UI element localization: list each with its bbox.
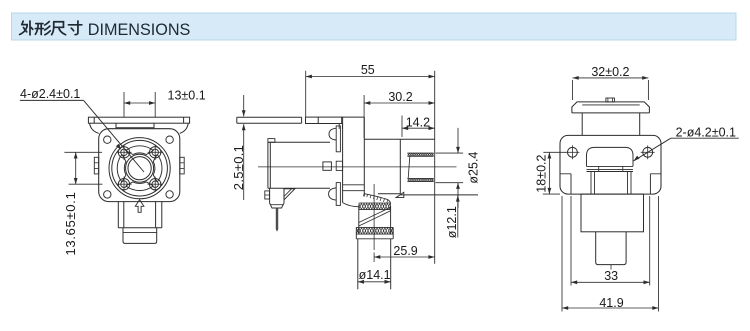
front view hub outer ring [126,154,154,182]
dimension 33 extension lines [570,196,572,286]
side view horizontal centerline [258,166,457,168]
side view small square detail [323,162,332,170]
side view tube thread band top [408,152,434,154]
dimension 2.5±0.1 line [243,95,245,116]
side view connector pin [276,208,278,231]
svg-text:ø12.1: ø12.1 [445,206,459,238]
svg-text:13.65±0.1: 13.65±0.1 [63,192,78,256]
dimension 30.2 extension line [363,95,365,138]
dimension 14.2 line [402,127,435,129]
rear view window [587,147,634,166]
svg-text:18±0.2: 18±0.2 [535,154,549,192]
dimension &#248;12.1 line [457,195,459,237]
front view boss outer circle [109,138,170,199]
label 4-&#248;2.4±0.1 leader [84,100,144,172]
side view mounting plate edge [237,116,302,118]
front view corner mounting holes [104,136,111,143]
dimension 55 line [306,76,435,78]
side view outlet tube [357,239,359,289]
svg-text:13±0.1: 13±0.1 [168,89,206,103]
dimension 13.65±0.1 line [75,152,77,184]
side view tube end / extension line [434,71,436,264]
rear view flange hole left [568,147,578,157]
rear view flange hole right [643,147,653,157]
dimension 13.65±0.1 extension lines [64,151,102,153]
svg-text:33: 33 [604,269,618,283]
side view elbow left transition [343,203,359,207]
front view flow direction arrow [135,200,144,213]
front view valve body outline [99,129,180,202]
front view flange bar left tab divider [93,117,95,123]
side view upper screw bar [336,126,340,152]
side view barb serration band 2 [356,226,393,228]
side view upper screw dome [329,128,336,140]
front view bottom spout [123,228,157,244]
rear view mounting flange [560,135,661,194]
label 2-&#248;4.2±0.1 underline [671,137,739,139]
dimension 13±0.1 line [124,102,155,104]
front view mounting flange bar [88,117,189,123]
dimension 30.2 line [364,102,435,104]
side view thread root lines [408,156,410,178]
side view barb flare [355,227,357,238]
svg-text:55: 55 [361,63,375,77]
dimension 18±0.2 line [548,152,550,194]
side view gusset flag [284,189,295,200]
rear view cap body [581,113,583,135]
side view elbow serration ticks [362,193,365,196]
front view petal cutouts [117,146,162,191]
front view lower housing step [117,202,119,228]
side view inlet tube outline [400,138,434,140]
dimension 55 extension line [305,71,307,117]
svg-text:2-ø4.2±0.1: 2-ø4.2±0.1 [676,125,736,139]
side view tab-to-column connector [338,124,340,129]
dimension 18±0.2 extension lines [543,151,566,153]
svg-text:ø25.4: ø25.4 [466,152,480,184]
dimension 32±0.2 extension lines [572,80,574,100]
dimension &#248;25.4 extension lines [436,152,464,154]
side view elbow triangle detail [396,192,404,197]
rear view inner box [590,172,592,195]
front view flange raised center tab [116,123,154,128]
rear view lower body block [581,194,644,232]
side view bonnet column [342,116,365,118]
front view main circle [112,140,168,196]
side view top tab [306,117,342,123]
side view coil top-left tab [268,139,275,143]
svg-text:2.5±0.1: 2.5±0.1 [231,145,246,190]
dimension 33 line [571,281,650,283]
front view flange bar right tab divider [183,117,185,123]
side view outlet centerline [373,184,375,250]
rear view cap nub [606,98,615,102]
side view column lower lines [343,184,365,186]
rear view flange step lines [560,173,571,175]
side view inlet body [364,138,400,140]
front view 4 pilot holes (4-&#248;2.4) with crosshairs [121,149,128,156]
front view left side tab [94,157,98,174]
side view barb serration band 1 [359,202,391,204]
dimension &#248;14.1 line [358,281,391,283]
svg-text:32±0.2: 32±0.2 [591,65,629,79]
rear view outlet center tick [610,265,612,270]
title bar [12,13,737,40]
front view right side tab [180,157,184,174]
rear view cap top band [572,102,650,113]
side view lower screw dome [329,188,337,200]
svg-text:ø14.1: ø14.1 [359,268,391,282]
label 4-&#248;2.4±0.1 underline [20,99,84,101]
svg-text:30.2: 30.2 [388,90,412,104]
svg-text:14.2: 14.2 [406,115,430,129]
side view lower screw bar [336,183,340,206]
side view tube thread band bottom [408,177,434,179]
dimension 13±0.1 extension lines [123,92,125,117]
svg-text:4-ø2.4±0.1: 4-ø2.4±0.1 [20,87,80,101]
side view barb diagonal lines [359,211,391,226]
side view solenoid coil outline [268,141,330,143]
front view flange left ear curve [90,123,99,133]
side view elbow outer curve [364,194,390,204]
side view hose barb sides [358,205,360,235]
dimension 25.9 line [374,256,435,258]
side view connector housing [270,188,284,208]
svg-text:41.9: 41.9 [599,296,623,310]
title chinese 外形尺寸 [20,21,82,35]
dimension &#248;25.4 line [457,128,459,153]
rear view outlet cylinder [596,232,626,265]
side view connector left tab [265,191,270,199]
rear view window bars [587,165,634,167]
svg-text:DIMENSIONS: DIMENSIONS [88,21,191,39]
front view flange right ear curve [180,123,188,133]
dimension 41.9 line [562,307,659,309]
side view middle stem tab [336,161,342,170]
dimension 41.9 extension lines [561,196,563,312]
label 2-&#248;4.2±0.1 leader [634,138,671,161]
dimension 14.2 extension line [401,116,403,138]
dimension 32±0.2 line [573,77,649,79]
front view hub inner ring [128,157,151,180]
svg-text:25.9: 25.9 [393,244,417,258]
